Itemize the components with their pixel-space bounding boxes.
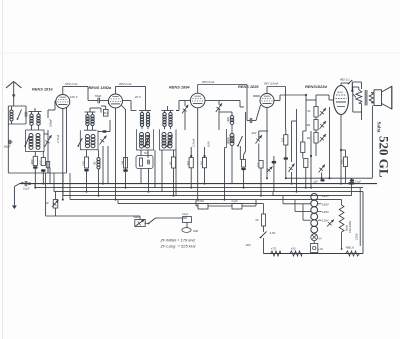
bus wire 1 (HT) [286,177,372,179]
detector coil L12 [230,134,234,138]
svg-text:50: 50 [168,161,172,165]
svg-text:100 V: 100 V [70,95,79,99]
varcap C15 [267,167,273,173]
svg-text:RENS 1826: RENS 1826 [238,84,259,89]
wire V4 anode rail [266,87,268,94]
frame tuned circuit 1 [26,130,45,152]
wire L2 top bar [29,111,42,113]
wire top feed V5 [329,99,334,101]
svg-text:100pF: 100pF [49,119,53,127]
wire grid2 varcap C12 [216,103,222,112]
bus nest corner d [302,204,304,221]
IF1 primary coil L7a [140,113,143,116]
svg-text:1,5mA: 1,5mA [56,135,60,143]
svg-text:0,1: 0,1 [256,162,260,166]
svg-text:0,1μF: 0,1μF [23,187,30,190]
wire node B riser [291,121,293,162]
padder switch S2 [25,136,29,146]
varcap C22 [319,165,326,173]
resistor R21 41 (zigzag) [290,251,302,256]
svg-text:110-240V: 110-240V [348,220,352,233]
wire V4 cathode [266,108,268,179]
resistor R9 [259,161,263,169]
resistor R19 25 [261,214,265,226]
transformer tap 220V [318,195,322,197]
wire V1 cathode to bus [62,109,64,200]
svg-text:95V 0,5mA: 95V 0,5mA [264,81,278,85]
junction dot bus [294,253,296,255]
svg-text:98V,1mA: 98V,1mA [119,82,132,86]
trim switch S4 [145,136,151,147]
svg-text:110V: 110V [355,232,359,240]
svg-text:20 V: 20 V [134,95,142,99]
tube V3 RENS1894 [190,93,205,108]
IF2 secondary coil L10b [168,133,172,137]
wire column top [306,99,316,101]
wire top rail down to C7 [87,86,89,100]
svg-text:0,1μF: 0,1μF [182,213,189,216]
bus left corner 4 [53,173,55,192]
bus left corner 5 [62,173,64,196]
transformer core lines [364,90,366,106]
resistor R7 1M [202,158,206,168]
mains switch S8 [261,232,267,238]
bandfilter coil L5b [91,135,95,139]
capacitor C5 (block) [41,169,46,172]
resistor R12 [304,159,308,168]
fuse box SI1 [311,244,318,253]
bus nest corner a [272,192,274,196]
svg-text:ZF Mittel = 178 kHz: ZF Mittel = 178 kHz [160,238,196,243]
capacitor C17 (block) [284,157,288,160]
wire V5 cathode to bus [340,115,342,184]
bus wire 7 [118,203,264,205]
varcap C20 [320,121,327,129]
svg-text:41Ω: 41Ω [291,247,296,250]
svg-text:4,5kΩ: 4,5kΩ [198,200,205,203]
IF1 secondary coil L8b [146,133,150,137]
wire V3 to det [205,100,212,102]
svg-text:RENS1823d: RENS1823d [305,84,327,89]
wire V2 screen lead [122,106,126,110]
bus left corner 7 [117,200,119,204]
pickup jack box (Ton.) [136,156,153,169]
svg-text:RENS 1852a: RENS 1852a [89,85,113,90]
wire det to V4 [226,100,240,102]
tuning capacitor C3 (variable) [45,135,52,147]
wire screen rail [296,109,298,170]
coupling capacitor C9 [102,130,106,132]
svg-text:220V: 220V [322,194,329,198]
oscillator coil L2b [37,114,40,117]
grid wire T1 [47,110,49,118]
capacitor C28 on drop [349,182,355,184]
capacitor C10 (block) [84,169,89,172]
page edge line (left) [2,0,4,339]
svg-text:2M: 2M [120,160,124,166]
loudspeaker LS1 [374,90,382,106]
volume control P2 60k [135,220,145,227]
frame detector circuit [225,129,227,148]
svg-text:300: 300 [226,117,230,122]
cathode resistor R16 150 [343,157,347,167]
heater wire bottom [264,253,364,255]
svg-text:1,5mA: 1,5mA [192,139,196,147]
IF1 secondary coil L8a [140,133,144,137]
transformer tap 125V [318,211,322,213]
IF2 secondary coil L10a [162,133,166,137]
svg-text:110V: 110V [322,219,329,223]
wire V5 anode to transformer [351,83,353,91]
varcap C21 [320,134,327,142]
svg-text:2M: 2M [186,161,190,167]
svg-text:Saba: Saba [375,122,381,133]
bus left corner 3 [34,184,36,188]
svg-text:0,5: 0,5 [281,138,285,142]
resistor R11 1M [301,142,305,153]
svg-text:70pF: 70pF [95,94,102,98]
svg-text:4B2 0,1: 4B2 0,1 [340,78,350,82]
wire right drop [362,192,364,254]
svg-text:30: 30 [93,161,97,165]
svg-text:3000: 3000 [226,137,230,144]
svg-text:RENS 1816: RENS 1816 [32,86,53,91]
resistor R3 150 [84,157,88,168]
wire L12 to bus [231,146,233,184]
wire V2 anode rail [115,86,117,94]
pilot lamp LA1 [311,234,318,241]
antenna coupling coil L1 [10,110,13,113]
wire input to frame ground [7,124,9,173]
wire R3 to bus [86,172,88,192]
svg-text:95V,1mA: 95V,1mA [65,82,78,86]
volume potentiometer P1 [53,200,58,209]
wave switch S3 [78,138,82,146]
chassis ground GND1 [13,187,15,206]
IF2 primary coil L9b [169,113,172,116]
resistor R5 50 [171,157,175,168]
grid varcap C11 [182,105,188,114]
svg-text:2μF: 2μF [313,180,319,183]
bandfilter coil L5a [86,135,90,139]
resistor R20 4,7 (zigzag) [271,251,282,256]
wire L9 top [162,110,174,112]
tube V4 RENS1826 [260,94,274,108]
svg-text:RENS: RENS [337,92,343,94]
bus left corner 6 [69,173,71,200]
resistor R22 MBL8 (zigzag) [346,251,360,256]
wire V1 anode to top rail [62,86,64,94]
grid resistor column R13 [314,107,318,118]
svg-text:300: 300 [30,159,34,164]
svg-text:0,1: 0,1 [38,160,42,164]
wire L2 bottom [31,125,33,130]
resistor R8 [241,160,245,168]
tuning capacitor C8 (variable) [100,136,107,145]
wire rc to bus [310,131,312,188]
antenna A1 [6,82,22,89]
diode load varcap C13 [256,135,263,144]
svg-text:4,7Ω: 4,7Ω [271,247,276,250]
grid resistor RLF box [103,109,108,116]
wire V2 cathode to bus [115,108,117,200]
mains transformer primary TR1 [311,194,318,201]
resistor R1 300 [33,156,37,165]
wire V4 to output grid [274,100,280,102]
capacitor C26 0,1uF box [183,217,192,223]
resistor R10 0,5 [284,135,288,145]
wire speaker return [371,106,373,179]
grid resistor column R15 [314,133,318,144]
frame IF2 [160,129,177,150]
grid resistor column R14 [314,120,318,131]
svg-text:6V: 6V [319,237,322,241]
frame tuned circuit 2 [80,130,98,150]
svg-text:1M: 1M [307,136,311,140]
bus drop x263 [263,204,265,214]
wire IF1 to bus [140,169,142,184]
voltage selector switch S9 [327,220,334,227]
trim switch S5 [167,136,173,147]
tube V5 RENS1823d [334,86,349,115]
IF1 primary coil L7b [146,113,149,116]
wire AF line [45,173,47,216]
frame IF1 [137,129,154,150]
svg-text:MBL 8: MBL 8 [346,245,354,249]
transformer tap 110V [318,219,322,221]
screen resistor R4 [123,158,127,169]
svg-text:1M: 1M [199,161,203,166]
switch S7 [149,218,156,224]
svg-text:Ton: Ton [144,151,149,155]
varcap C18 [289,164,295,173]
capacitor C23 2uF [320,179,324,181]
tuning coil L3a [29,134,33,138]
svg-text:150: 150 [81,161,85,166]
svg-text:RENS 1894: RENS 1894 [169,85,190,90]
capacitor C24 at bus [350,179,354,181]
varcap C19 [320,108,327,116]
IF2 primary coil L9a [163,113,166,116]
wire L4 top [85,111,96,113]
wire L4 bottom to frame [87,126,89,131]
wire V3 cathode to bus [197,108,199,200]
wire antenna to input network [13,101,15,106]
tuning coil L3b [36,134,40,138]
svg-text:4,5A: 4,5A [270,231,276,235]
page edge line (top) [0,52,400,54]
wire IF to V3 grid [176,110,179,112]
wire R1 to bus [34,169,36,188]
svg-text:2M: 2M [307,123,311,127]
wire pot down [55,215,57,217]
blocking capacitor C25 0,1uF [20,182,24,183]
transformer tap 160V [318,203,322,205]
svg-text:160V: 160V [322,202,329,206]
bus wire 6 [70,199,342,201]
bus nest corner b [282,196,284,204]
svg-text:125V: 125V [322,210,329,214]
capacitor C14 (block) [272,161,277,164]
coupling capacitor C7 70pF [97,98,99,104]
series capacitor C2 60pF [8,140,10,144]
bandfilter coil L4a [86,115,89,118]
svg-text:513: 513 [104,111,109,115]
wire V1 aux lead [66,108,68,174]
wire V5 grid cap top [340,83,342,86]
speaker winding (zigzag) [369,92,373,103]
resistor R18 4,5k box [198,204,208,210]
output choke Dr (zigzag) [356,90,362,104]
svg-text:L04: L04 [319,247,324,251]
svg-text:60kΩ: 60kΩ [134,216,140,219]
resistor R17 2M ellipse [182,228,191,233]
svg-text:520 GL: 520 GL [376,136,391,178]
misc wire droppers [49,168,51,184]
svg-text:ZF Lang = 525 kHz: ZF Lang = 525 kHz [160,244,196,249]
bus wire 5 [63,195,351,197]
detector coil L11 [230,116,234,120]
svg-text:60pF: 60pF [4,145,11,149]
bus wire 2 (ground) [20,183,378,185]
bus wire 3 [35,187,363,189]
oscillator coil L2a [30,114,33,117]
wire transformer frame [352,105,354,112]
mains dropper resistor R23 (vert zigzag) [341,200,343,205]
wire V3 grid [178,101,180,111]
wire C3 to node [47,130,49,173]
svg-text:2MΩ: 2MΩ [192,230,198,233]
junction dots on bus wires [62,199,64,201]
tube V2 RENS1852a [109,94,123,108]
wire L7 top [139,110,151,112]
bus nest corner c [294,200,296,212]
svg-text:98V,3mA: 98V,3mA [202,80,215,84]
capacitor C4 (block) [33,166,38,169]
band switch S1 [18,110,22,120]
wire heater rail T2-T3 [108,101,110,105]
svg-text:25: 25 [255,218,259,222]
capacitor C16 grid [249,118,251,123]
bus wire 4 [54,191,363,193]
switch S6 [238,136,243,146]
resistor R6 2M [189,158,193,168]
capacitor C27 0,2uF box [232,204,242,210]
tube V1 RENS1816 [56,95,70,109]
cathode coil L6 [97,158,100,161]
wire V3 anode rail [197,85,199,94]
resistor R2 0.1 [41,158,45,166]
wire C8 node down [102,146,104,184]
wire R2 to bus [42,172,44,184]
svg-text:0,2μF: 0,2μF [232,200,239,203]
trimmer capacitor C1 [24,112,26,117]
bandfilter coil L4b [91,115,94,118]
capacitor C6 0,1 [46,162,49,168]
wire L6 to bus [98,169,100,196]
